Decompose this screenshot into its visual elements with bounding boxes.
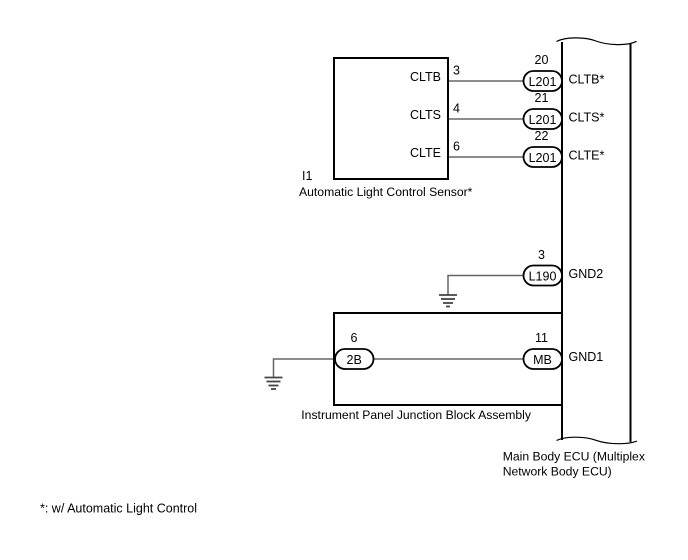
ECU top torn edge <box>557 38 637 45</box>
svg-text:L201: L201 <box>529 75 557 89</box>
svg-text:L201: L201 <box>529 113 557 127</box>
svg-text:CLTE*: CLTE* <box>569 149 605 163</box>
svg-text:Network Body ECU): Network Body ECU) <box>503 465 612 479</box>
wire 2B to ground <box>274 359 338 378</box>
wire CLTB pin3 to L201 <box>448 80 526 82</box>
connector L190 pin 3 <box>524 266 563 286</box>
ECU right edge <box>630 44 632 443</box>
ECU bottom torn edge <box>557 437 638 443</box>
svg-text:11: 11 <box>535 331 548 345</box>
box Instrument Panel Junction Block <box>334 313 562 405</box>
connector L201 pin 20 <box>524 71 563 91</box>
svg-text:MB: MB <box>533 353 552 367</box>
wire GND2 L190 to ground <box>448 276 526 296</box>
svg-text:CLTB: CLTB <box>410 70 441 84</box>
ECU left edge <box>561 42 563 440</box>
wire 2B to MB <box>372 358 526 360</box>
svg-text:6: 6 <box>351 331 358 345</box>
connector L201 pin 22 <box>524 147 563 167</box>
wire CLTS pin4 to L201 <box>448 118 526 120</box>
wire CLTE pin6 to L201 <box>448 156 526 158</box>
svg-text:L201: L201 <box>529 151 557 165</box>
svg-text:L190: L190 <box>529 269 557 283</box>
svg-text:Automatic Light Control Sensor: Automatic Light Control Sensor* <box>299 185 473 199</box>
svg-text:6: 6 <box>453 140 460 154</box>
connector MB pin 11 <box>524 349 563 369</box>
svg-text:CLTB*: CLTB* <box>569 73 605 87</box>
connector 2B pin 6 <box>335 349 374 369</box>
svg-text:Main Body ECU (Multiplex: Main Body ECU (Multiplex <box>503 450 645 464</box>
svg-text:2B: 2B <box>347 353 362 367</box>
svg-text:I1: I1 <box>302 169 312 183</box>
svg-text:GND2: GND2 <box>569 267 604 281</box>
connector L201 pin 21 <box>524 109 563 129</box>
svg-text:22: 22 <box>535 129 549 143</box>
svg-text:*: w/ Automatic Light Control: *: w/ Automatic Light Control <box>40 502 197 516</box>
svg-text:CLTS: CLTS <box>410 108 441 122</box>
svg-text:20: 20 <box>535 53 549 67</box>
svg-text:CLTS*: CLTS* <box>569 111 605 125</box>
svg-text:Instrument Panel Junction Bloc: Instrument Panel Junction Block Assembly <box>301 408 532 422</box>
svg-text:GND1: GND1 <box>569 350 604 364</box>
box I1 Automatic Light Control Sensor <box>334 58 448 179</box>
svg-text:CLTE: CLTE <box>410 146 441 160</box>
ground symbol (GND2) <box>439 295 457 307</box>
svg-text:21: 21 <box>535 91 549 105</box>
svg-text:3: 3 <box>453 64 460 78</box>
svg-text:4: 4 <box>453 102 460 116</box>
svg-text:3: 3 <box>538 248 545 262</box>
ground symbol (left) <box>265 378 283 390</box>
